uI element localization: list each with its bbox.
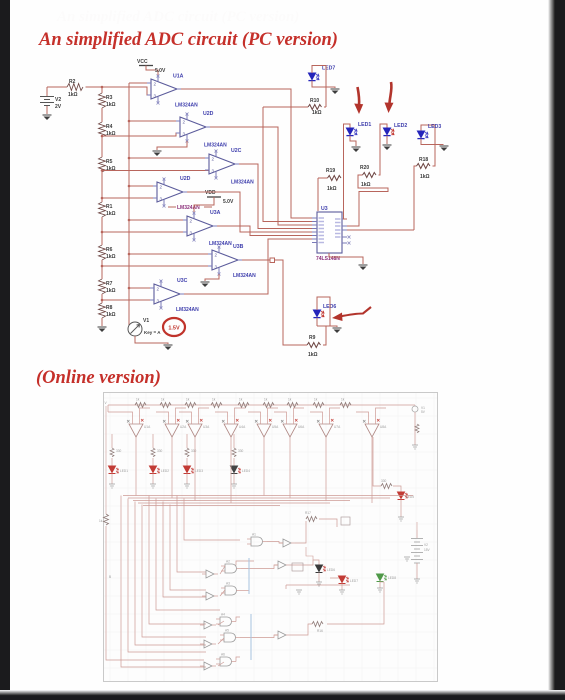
wire rail to op-amp U6 [274,412,287,418]
resistor R4 (online rail) [211,398,222,408]
resistor R9 (online rail) [340,398,351,408]
wire bundle stub 5 [143,505,280,507]
wire battery link [416,522,418,530]
gate A6 [216,653,236,667]
ground below LED1 [352,147,361,152]
ground below U3 [359,265,368,270]
ground right of LED6 [333,328,342,333]
LED mid2 (online) [330,576,358,594]
svg-text:LED2: LED2 [161,469,169,473]
buffer [202,570,218,578]
svg-text:VCC: VCC [137,59,148,65]
op-amp U6 (online) [281,418,305,437]
power VCC 5.0V [137,59,166,75]
wire ladder segment R8-gnd [101,318,103,326]
wire rail to op-amp U1 [108,412,133,418]
wire ladder segment R7-R8 [101,294,103,303]
wire op-amp U4 output down [230,437,232,503]
wire mid feed [306,547,313,560]
wire R19 chain [318,177,328,179]
svg-text:LED7: LED7 [322,66,335,72]
wire op-amp U1 output down [135,437,137,496]
gate A4 [216,613,236,627]
wire R2 to ladder [86,87,103,93]
label LM324AN (highlighted) for U2D [168,205,212,211]
resistor R8 [99,303,116,318]
wire tap to U1A [102,87,151,95]
voltage source V2 [40,87,62,114]
svg-text:1kΩ: 1kΩ [327,186,337,192]
svg-text:LED8: LED8 [388,576,396,580]
svg-text:R18: R18 [419,157,428,163]
wire to green LED [327,582,384,624]
resistor R6 [99,245,116,260]
wire tap to U2D second [102,197,157,199]
wire fan line 4 [142,505,206,638]
ground below U3B [201,282,210,287]
LED LED6 [313,304,336,318]
bottom black bar [0,695,565,700]
ground small (online mid) [296,590,302,594]
wire U3C output to U3 pin [184,239,312,294]
resistor R5 [99,157,116,172]
svg-text:1.5V: 1.5V [168,326,180,332]
wire U2C output to U3 pin [239,164,312,229]
wire U1A output to U3 pin [181,89,312,218]
svg-text:V1: V1 [143,318,149,324]
svg-text:V2: V2 [424,543,428,547]
resistor R3 (online rail) [185,398,196,408]
wire LED7 loop to R10 [312,66,326,108]
svg-text:1k: 1k [186,398,190,402]
wire gate row1 output [267,542,283,544]
wire rail to op-amp U8 [356,412,369,418]
op-amp U8 (online) [363,418,387,437]
svg-text:330: 330 [191,449,197,453]
svg-text:R4: R4 [106,124,113,130]
svg-text:U5A: U5A [272,425,279,429]
svg-text:LM324AN: LM324AN [233,273,256,279]
wire LED6 anode loop [317,297,330,326]
svg-text:1k: 1k [212,398,216,402]
svg-text:LED1: LED1 [120,469,128,473]
svg-text:U1A: U1A [144,425,151,429]
wire sense to U3B [129,253,212,255]
svg-text:U1A: U1A [173,74,184,80]
svg-text:A5: A5 [225,629,229,633]
resistor R2 (online rail) [160,398,171,408]
svg-text:330: 330 [116,449,122,453]
svg-text:(Online version): (Online version) [36,368,161,388]
svg-text:An simplified ADC circuit (PC: An simplified ADC circuit (PC version) [56,9,299,25]
wire LED6 to ground [316,318,318,326]
svg-text:330: 330 [238,449,244,453]
svg-text:U2D: U2D [180,176,191,182]
op-amp U1 (online) [127,418,151,437]
svg-text:V2: V2 [55,97,61,103]
wire op-amp U2 output down [171,437,173,498]
op-amp U3 (online) [186,418,210,437]
svg-text:1k: 1k [99,519,103,523]
op-amp U2C (LM324AN) [205,148,254,186]
svg-text:VDD: VDD [205,190,216,196]
op-amp U7 (online) [317,418,341,437]
resistor (online left edge) [99,514,109,525]
svg-text:5.0V: 5.0V [223,199,234,205]
svg-text:LED4: LED4 [242,469,250,473]
voltage source V1 [128,318,161,336]
svg-text:LED1: LED1 [358,122,371,128]
svg-text:R5: R5 [106,159,113,165]
wire light blue bus 1 [248,558,250,594]
LED group LED2 (online) [150,434,170,488]
svg-text:U2C: U2C [231,148,242,154]
svg-text:R20: R20 [360,165,369,171]
svg-text:1k: 1k [314,398,318,402]
wire fan line 10 [184,499,240,541]
svg-text:LM324AN: LM324AN [177,205,200,211]
svg-text:LED2: LED2 [394,123,407,129]
svg-text:A1: A1 [252,533,256,537]
wire top rail [108,404,415,406]
wire rail left drop [107,405,109,412]
svg-text:LM324AN: LM324AN [231,180,254,186]
svg-text:5.0V: 5.0V [155,68,166,74]
wire sense to U2C [129,157,209,159]
resistor R1 [99,202,116,217]
wire R18 chain [347,229,414,231]
ground ladder bottom [98,327,107,332]
wire U2D output to U3 pin [210,127,312,225]
wire U3B power to ground [205,274,219,281]
wire rail to op-amp U7 [310,412,323,418]
gate A1 [247,533,267,547]
svg-text:U2D: U2D [203,111,214,117]
svg-text:LM324AN: LM324AN [176,307,199,313]
component box (online mid) [341,517,350,525]
svg-text:LM324AN: LM324AN [204,143,227,149]
ground right of LED7 [331,89,340,94]
op-amp U1A (LM324AN) [147,74,198,109]
ground below U2D [153,151,162,156]
wire LED2 to ground [386,136,388,144]
svg-text:1kΩ: 1kΩ [106,211,116,217]
wire fan line 3 [135,502,206,646]
ground below battery (online) [414,579,420,583]
svg-text:LED6: LED6 [327,568,335,572]
resistor R19 [326,168,341,192]
wire tap to U3B [102,265,212,267]
power VDD 5.0V [194,190,234,212]
wire U2D second output to U3 pin [187,192,312,232]
svg-text:R1: R1 [106,204,113,210]
gate A3 [221,582,241,596]
wire LED row to ground (online) [286,584,350,586]
resistor R4 [99,122,116,137]
grid background [104,393,437,681]
buffer [274,631,290,639]
LED mid1 (online) [313,560,335,586]
svg-text:1k: 1k [136,398,140,402]
op-amp U3A (LM324AN) [183,210,232,247]
svg-text:1k: 1k [161,398,165,402]
buffer [200,662,216,670]
annotation red ellipse 1.5V [163,318,185,336]
wire rail to op-amp U2 [156,412,169,418]
wire R9 to LED6 [317,326,326,345]
left black bar [0,0,10,700]
wire ladder segment R6-R7 [101,260,103,279]
svg-text:1kΩ: 1kΩ [106,288,116,294]
wire U2D power to ground [157,141,187,150]
resistor R9 [307,335,321,358]
svg-text:1kΩ: 1kΩ [106,254,116,260]
wire R20 hairpin chain [347,175,388,226]
svg-text:R9: R9 [309,335,316,341]
svg-text:1kΩ: 1kΩ [420,174,430,180]
wire op-amp U5 output down [263,437,265,496]
resistor R8 (online rail) [313,398,324,408]
wire rail to op-amp U4 [215,412,228,418]
svg-text:B: B [109,575,111,579]
svg-text:An simplified ADC circuit (PC: An simplified ADC circuit (PC version) [38,30,338,50]
wire left edge vertical [105,406,107,514]
wire fan line 1 [121,496,206,668]
svg-text:U4A: U4A [239,425,246,429]
wire sense to U1A [129,82,151,84]
wire tap to U3C [102,299,154,301]
svg-text:R19: R19 [326,168,335,174]
wire op-amp U3 output down [194,437,196,501]
LED LED3 [417,124,441,139]
right black bar [554,0,565,700]
wire U3B output with junction box [242,259,270,261]
ground right of LED3 [440,146,449,151]
wire LED7 cathode to ground [312,81,335,88]
op-amp U3B (LM324AN) [208,244,256,279]
wire fan line 9 [177,496,206,573]
svg-text:A4: A4 [221,613,225,617]
wire op-amp U7 output down [325,437,327,501]
svg-text:1kΩ: 1kΩ [312,110,322,116]
wire op-amp U8 output down [371,437,373,503]
resistor R18 [417,157,431,180]
svg-text:2V: 2V [55,104,62,110]
wire ladder segment R4-R5 [101,137,103,157]
wire bundle line 2 [128,497,390,499]
buffer [274,561,290,569]
svg-text:U7A: U7A [334,425,341,429]
gate A5 [220,629,240,643]
ground floating left of battery (online) [404,557,410,561]
svg-text:R10: R10 [310,98,319,104]
wire tap to U2D [102,133,180,136]
LED LED1 [346,122,371,136]
LED group LED3 (online) [184,434,204,488]
svg-text:LED3: LED3 [195,469,203,473]
wire ladder segment R1-R6 [101,217,103,245]
wire sense to U3C [129,287,154,289]
LED group LED5 (online right) [373,437,414,521]
svg-text:U3B: U3B [233,244,244,250]
wire tap to U3A [102,231,187,233]
svg-text:A6: A6 [221,653,225,657]
wire bundle line 1 [123,495,413,497]
svg-text:1kΩ: 1kΩ [361,182,371,188]
svg-text:R2: R2 [69,79,76,85]
LED green (online) [377,574,397,592]
svg-text:1kΩ: 1kΩ [308,352,318,358]
resistor R20 [360,165,376,188]
svg-text:U3C: U3C [177,278,188,284]
ground below LED2 [383,145,392,150]
resistor R2 [67,79,83,98]
wire V2 to R2 [47,86,67,88]
wire sense to U2D second [129,185,157,187]
svg-text:1kΩ: 1kΩ [106,102,116,108]
svg-text:U8A: U8A [380,425,387,429]
svg-text:1kΩ: 1kΩ [68,92,78,98]
op-amp U4 (online) [222,418,246,437]
svg-text:U3: U3 [321,206,328,212]
ground below source (online) [412,445,418,449]
svg-text:1k: 1k [239,398,243,402]
wire LED1 to ground [350,136,356,146]
svg-text:R16: R16 [317,629,323,633]
resistor R16 (online) [312,622,323,634]
svg-text:1k: 1k [288,398,292,402]
wire light blue bus 2 [250,614,252,660]
op-amp U2 (online) [163,418,187,437]
resistor R10 [308,98,322,116]
wire rail to op-amp U3 [179,412,192,418]
svg-text:1k: 1k [264,398,268,402]
svg-text:R3: R3 [106,95,113,101]
resistor R7 (online rail) [287,398,298,408]
annotation arrow 2 [385,82,394,113]
wire R10 to U3 pin [263,106,308,108]
wire LED3 to ground [421,139,443,145]
svg-text:R7: R7 [106,281,113,287]
wire op-amp U6 output down [289,437,291,498]
wire tap to U2C [102,170,209,172]
wire ladder segment R5-R1 [101,172,103,202]
ground below V1 [164,345,173,350]
annotation arrow 1 [354,87,363,114]
wire bundle line 3 [133,500,350,502]
op-amp U3C (LM324AN) [150,278,199,313]
gate A2 [221,560,241,574]
voltage source (online top right) [412,405,426,445]
wire fan line 8 [170,505,206,591]
wire buffer feeds [220,566,225,574]
wire bottom output path [290,624,312,635]
LED LED7 [308,66,335,81]
resistor R6 (online rail) [263,398,274,408]
wire fan line 5 [149,496,206,625]
svg-text:330: 330 [381,479,387,483]
wire V1 sense vertical [128,83,130,325]
wire U3A output to U3 pin [217,226,312,236]
wire ladder segment R3-R4 [101,108,103,122]
wire fan line 6 [156,499,220,611]
resistor R3 [99,93,116,108]
battery (online right) [411,530,431,579]
svg-text:U2A: U2A [180,425,187,429]
buffer [200,640,216,648]
svg-text:U3A: U3A [210,210,221,216]
svg-text:LED3: LED3 [428,124,441,130]
svg-text:1k: 1k [341,398,345,402]
wire sense to U2D [129,120,180,122]
wire sense to U3A [129,219,187,221]
svg-text:LED7: LED7 [350,579,358,583]
wire fan line 7 [163,502,206,598]
buffer [279,539,295,547]
buffer [202,592,218,600]
wire fan line 2 [128,499,206,653]
svg-text:330: 330 [157,449,163,453]
svg-text:R8: R8 [106,305,113,311]
annotation arrow at LED6 [332,307,371,321]
resistor R5 (online rail) [238,398,249,408]
LED group LED1 (online) [109,434,129,488]
wire bundle line 4 [138,502,330,504]
svg-text:U3A: U3A [203,425,210,429]
svg-text:R17: R17 [305,511,311,515]
svg-text:A3: A3 [226,582,230,586]
svg-text:U6A: U6A [298,425,305,429]
wire rail to op-amp U5 [248,412,261,418]
wire V1 to ground [135,336,168,344]
buffer [200,621,216,629]
svg-text:15V: 15V [424,548,431,552]
svg-text:R6: R6 [106,247,113,253]
op-amp U2D2 (LM324AN) [153,176,191,208]
resistor R1 (online rail) [135,398,146,408]
LED LED2 [383,123,407,136]
resistor R17 (online) [305,511,317,522]
svg-text:1kΩ: 1kΩ [106,312,116,318]
IC U3 74LS148N [312,206,351,262]
svg-text:Key = A: Key = A [144,330,161,335]
svg-text:LM324AN: LM324AN [175,103,198,109]
svg-text:1kΩ: 1kΩ [106,166,116,172]
op-amp U5 (online) [255,418,279,437]
svg-text:A2: A2 [226,560,230,564]
display box (online) [292,563,303,571]
resistor R7 [99,279,116,294]
op-amp U2D (LM324AN) [176,111,227,149]
online screenshot frame [104,393,438,682]
wire U3 GND pin to ground [329,253,363,264]
LED group LED4 (online) [231,434,251,488]
svg-text:LM324AN: LM324AN [209,241,232,247]
ground below V2 [43,115,52,120]
